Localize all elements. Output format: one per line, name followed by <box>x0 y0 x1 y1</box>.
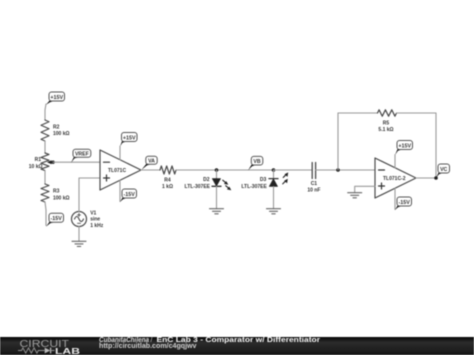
wire D3 node to C1 <box>274 169 313 171</box>
svg-text:D2: D2 <box>203 177 210 183</box>
svg-text:VREF: VREF <box>75 151 89 157</box>
svg-text:R1: R1 <box>35 157 42 163</box>
wire R2 to R1 <box>44 141 46 153</box>
wire R3 to -15V flag <box>45 202 46 226</box>
node junction feedback left <box>336 168 340 172</box>
wire V1 to ground <box>78 227 80 242</box>
net flag VREF <box>71 149 91 163</box>
resistor R5 <box>378 110 397 133</box>
svg-text:+15V: +15V <box>123 135 136 141</box>
power flag -15V (U1 V-) <box>120 189 137 202</box>
footer title text <box>95 334 474 355</box>
wire +15V to U1 V+ pin <box>119 146 121 160</box>
svg-text:100 kΩ: 100 kΩ <box>53 131 70 137</box>
svg-text:10 kΩ: 10 kΩ <box>29 164 43 170</box>
svg-text:-15V: -15V <box>51 216 63 222</box>
svg-text:1 kHz: 1 kHz <box>90 223 104 229</box>
svg-text:D3: D3 <box>260 177 267 183</box>
svg-text:V1: V1 <box>90 210 96 216</box>
power flag -15V (U2 V-) <box>395 197 412 210</box>
wire D2 to ground <box>216 186 218 208</box>
CircuitLab logo <box>0 337 95 355</box>
wire R1 wiper to U1 inverting input <box>53 161 100 163</box>
wire feedback left leg <box>337 113 339 170</box>
svg-text:R4: R4 <box>164 178 171 184</box>
ground (below D3) <box>267 209 281 214</box>
svg-text:10 nF: 10 nF <box>307 187 320 193</box>
wire D3 to ground <box>273 187 275 209</box>
svg-text:TL071C: TL071C <box>108 168 126 174</box>
svg-text:R5: R5 <box>383 121 390 127</box>
node junction at VC <box>434 176 438 180</box>
ground (U2 non-inverting input) <box>348 193 362 198</box>
svg-text:R3: R3 <box>53 189 60 195</box>
wire +15V to U2 V+ pin <box>394 155 396 169</box>
voltage source V1 <box>72 210 104 229</box>
wire +15V to R2 top <box>45 104 46 120</box>
wire C1 to U2 inverting input <box>316 169 375 171</box>
svg-text:100 kΩ: 100 kΩ <box>53 195 70 201</box>
wire V1 to U1 non-inverting input <box>79 178 100 212</box>
op-amp U2 TL071C-2 <box>375 158 416 198</box>
ground (below V1) <box>72 241 86 246</box>
svg-text:C1: C1 <box>311 181 318 187</box>
svg-text:5.1 kΩ: 5.1 kΩ <box>378 127 393 133</box>
svg-text:VA: VA <box>148 159 155 165</box>
svg-text:VC: VC <box>440 167 447 173</box>
power flag -15V (bottom of R3) <box>46 213 64 227</box>
svg-text:sine: sine <box>90 217 100 223</box>
wire feedback top left segment <box>338 112 378 114</box>
net flag VC <box>436 164 450 178</box>
wire U2 output to VC node <box>416 177 436 179</box>
svg-text:1 kΩ: 1 kΩ <box>162 184 173 190</box>
LED D2 <box>185 170 232 190</box>
wire R4 to D3 node <box>176 169 274 171</box>
wire U2 V- pin to -15V <box>394 188 396 209</box>
svg-text:http://circuitlab.com/c4gqjwv: http://circuitlab.com/c4gqjwv <box>99 343 197 350</box>
svg-text:-15V: -15V <box>124 192 136 198</box>
wire U1 output to R4 <box>141 169 160 171</box>
svg-text:+15V: +15V <box>50 95 63 101</box>
svg-text:LTL-307EE: LTL-307EE <box>185 184 211 190</box>
power flag +15V (top of R2) <box>46 92 65 105</box>
op-amp U1 TL071C <box>100 150 141 190</box>
footer bar <box>0 337 474 355</box>
wire R1 to R3 <box>44 171 46 185</box>
wire U1 V- pin to -15V <box>119 180 121 201</box>
wire feedback right leg <box>435 113 437 178</box>
net flag VB <box>248 156 263 170</box>
power flag +15V (U1 V+) <box>120 133 137 147</box>
svg-text:TL071C-2: TL071C-2 <box>383 176 406 182</box>
svg-text:LTL-307EE: LTL-307EE <box>241 184 267 190</box>
svg-text:R2: R2 <box>53 124 60 130</box>
node junction at D2 <box>215 168 219 172</box>
potentiometer R1 <box>29 153 55 171</box>
resistor R2 <box>41 120 70 141</box>
wire U2 non-inverting input to ground <box>355 186 375 192</box>
svg-text:+15V: +15V <box>398 143 411 149</box>
svg-text:-15V: -15V <box>399 200 411 206</box>
resistor R4 <box>160 166 176 190</box>
svg-text:VB: VB <box>253 159 260 165</box>
resistor R3 <box>41 184 70 202</box>
node junction at D3 <box>272 168 276 172</box>
wire feedback top right segment <box>397 112 437 114</box>
LED D3 <box>241 170 288 190</box>
svg-text:LAB: LAB <box>55 346 80 355</box>
ground (below D2) <box>210 209 224 214</box>
power flag +15V (U2 V+) <box>395 141 413 156</box>
net flag VA <box>141 156 157 170</box>
capacitor C1 <box>307 163 320 194</box>
